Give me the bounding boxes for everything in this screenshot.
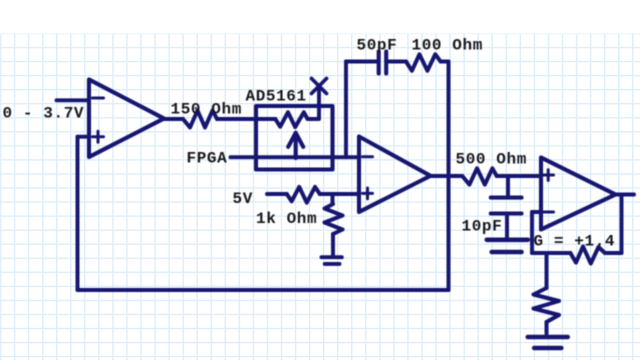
wire R3 to U3 plus input (320, 192, 359, 196)
U4 plus symbol (543, 170, 554, 181)
resistor R6 (gain feedback) (570, 246, 605, 263)
wire cap to resistor (388, 60, 406, 64)
pot wiper arrow (stem and barbs) (288, 133, 303, 158)
wire R7 to ground (545, 322, 549, 334)
wire R5 to op-amp U4 plus input (497, 174, 541, 178)
svg-text:5V: 5V (233, 190, 253, 208)
wire outer loop bottom (78, 288, 449, 292)
svg-text:150 Ohm: 150 Ohm (171, 101, 242, 119)
U3 plus symbol (363, 188, 373, 199)
U3 minus symbol (363, 155, 373, 158)
wire feedback to inverting node (532, 251, 570, 255)
ground (10pF cap) (487, 240, 528, 252)
potentiometer element inside AD5161 (275, 112, 317, 127)
capacitor C2 10pF (491, 198, 522, 214)
wire R4 to ground (331, 234, 335, 256)
U1 minus symbol (93, 97, 104, 100)
svg-text:AD5161: AD5161 (246, 88, 307, 106)
wire U4 feedback right vertical (620, 195, 624, 254)
wire outer loop left vertical (76, 137, 80, 290)
wire U4 feedback bottom left segment (605, 251, 622, 255)
wire FPGA / wiper node to op-amp U3 inverting input (231, 155, 359, 159)
svg-text:500 Ohm: 500 Ohm (456, 151, 527, 169)
resistor R7 (gain set, vertical) (534, 288, 560, 322)
svg-text:1k Ohm: 1k Ohm (256, 210, 317, 228)
wire inverting node vertical (530, 212, 534, 253)
wire node down to 1k resistor (331, 194, 335, 204)
wire R1 to AD5161 pot (217, 117, 275, 121)
wire node down to 10pF cap (506, 176, 510, 196)
svg-text:G = +1.4: G = +1.4 (534, 233, 616, 251)
svg-text:100 Ohm: 100 Ohm (412, 37, 483, 55)
ground (bottom right) (528, 337, 568, 348)
svg-text:10pF: 10pF (462, 218, 503, 236)
wire feedback/outer-loop right vertical (447, 62, 451, 291)
ground (1k Ohm) (322, 257, 342, 264)
wire to U4 inverting input (532, 210, 541, 214)
svg-text:0 - 3.7V: 0 - 3.7V (3, 105, 85, 123)
resistor R3 (5V series) (287, 187, 320, 203)
no-connect X on pot terminal (312, 79, 327, 94)
wire cap to ground (505, 215, 509, 237)
U1 plus symbol (93, 131, 104, 142)
wire feedback vertical from wiper node up (344, 62, 348, 158)
wire 5V input (267, 192, 287, 196)
wire pot right terminal up to no-connect (317, 87, 321, 119)
wire U4 output (616, 193, 635, 197)
op-amp U1 (left) (89, 80, 164, 158)
wire U1 output (164, 117, 183, 121)
resistor R4 1k Ohm (vertical) (325, 204, 343, 234)
svg-text:50pF: 50pF (357, 37, 398, 55)
svg-text:FPGA: FPGA (187, 150, 228, 168)
op-amp U3 (middle) (359, 137, 431, 213)
wire top feedback to cap (346, 60, 377, 64)
wire 100 Ohm to feedback vertical (441, 60, 449, 64)
AD5161 box U2 (256, 106, 333, 170)
wire U1 non-inverting input stub (78, 135, 90, 139)
resistor R5 500 Ohm (462, 168, 496, 184)
wire U3 output (431, 174, 463, 178)
op-amp U4 (right) (541, 158, 616, 230)
wire U1 inverting input (57, 98, 90, 102)
capacitor C1 50pF (379, 52, 387, 74)
wire down to gain-set resistor (545, 253, 549, 288)
resistor R2 100 Ohm (406, 54, 441, 71)
U4 minus symbol (543, 211, 554, 214)
resistor R1 150 Ohm (183, 111, 217, 128)
